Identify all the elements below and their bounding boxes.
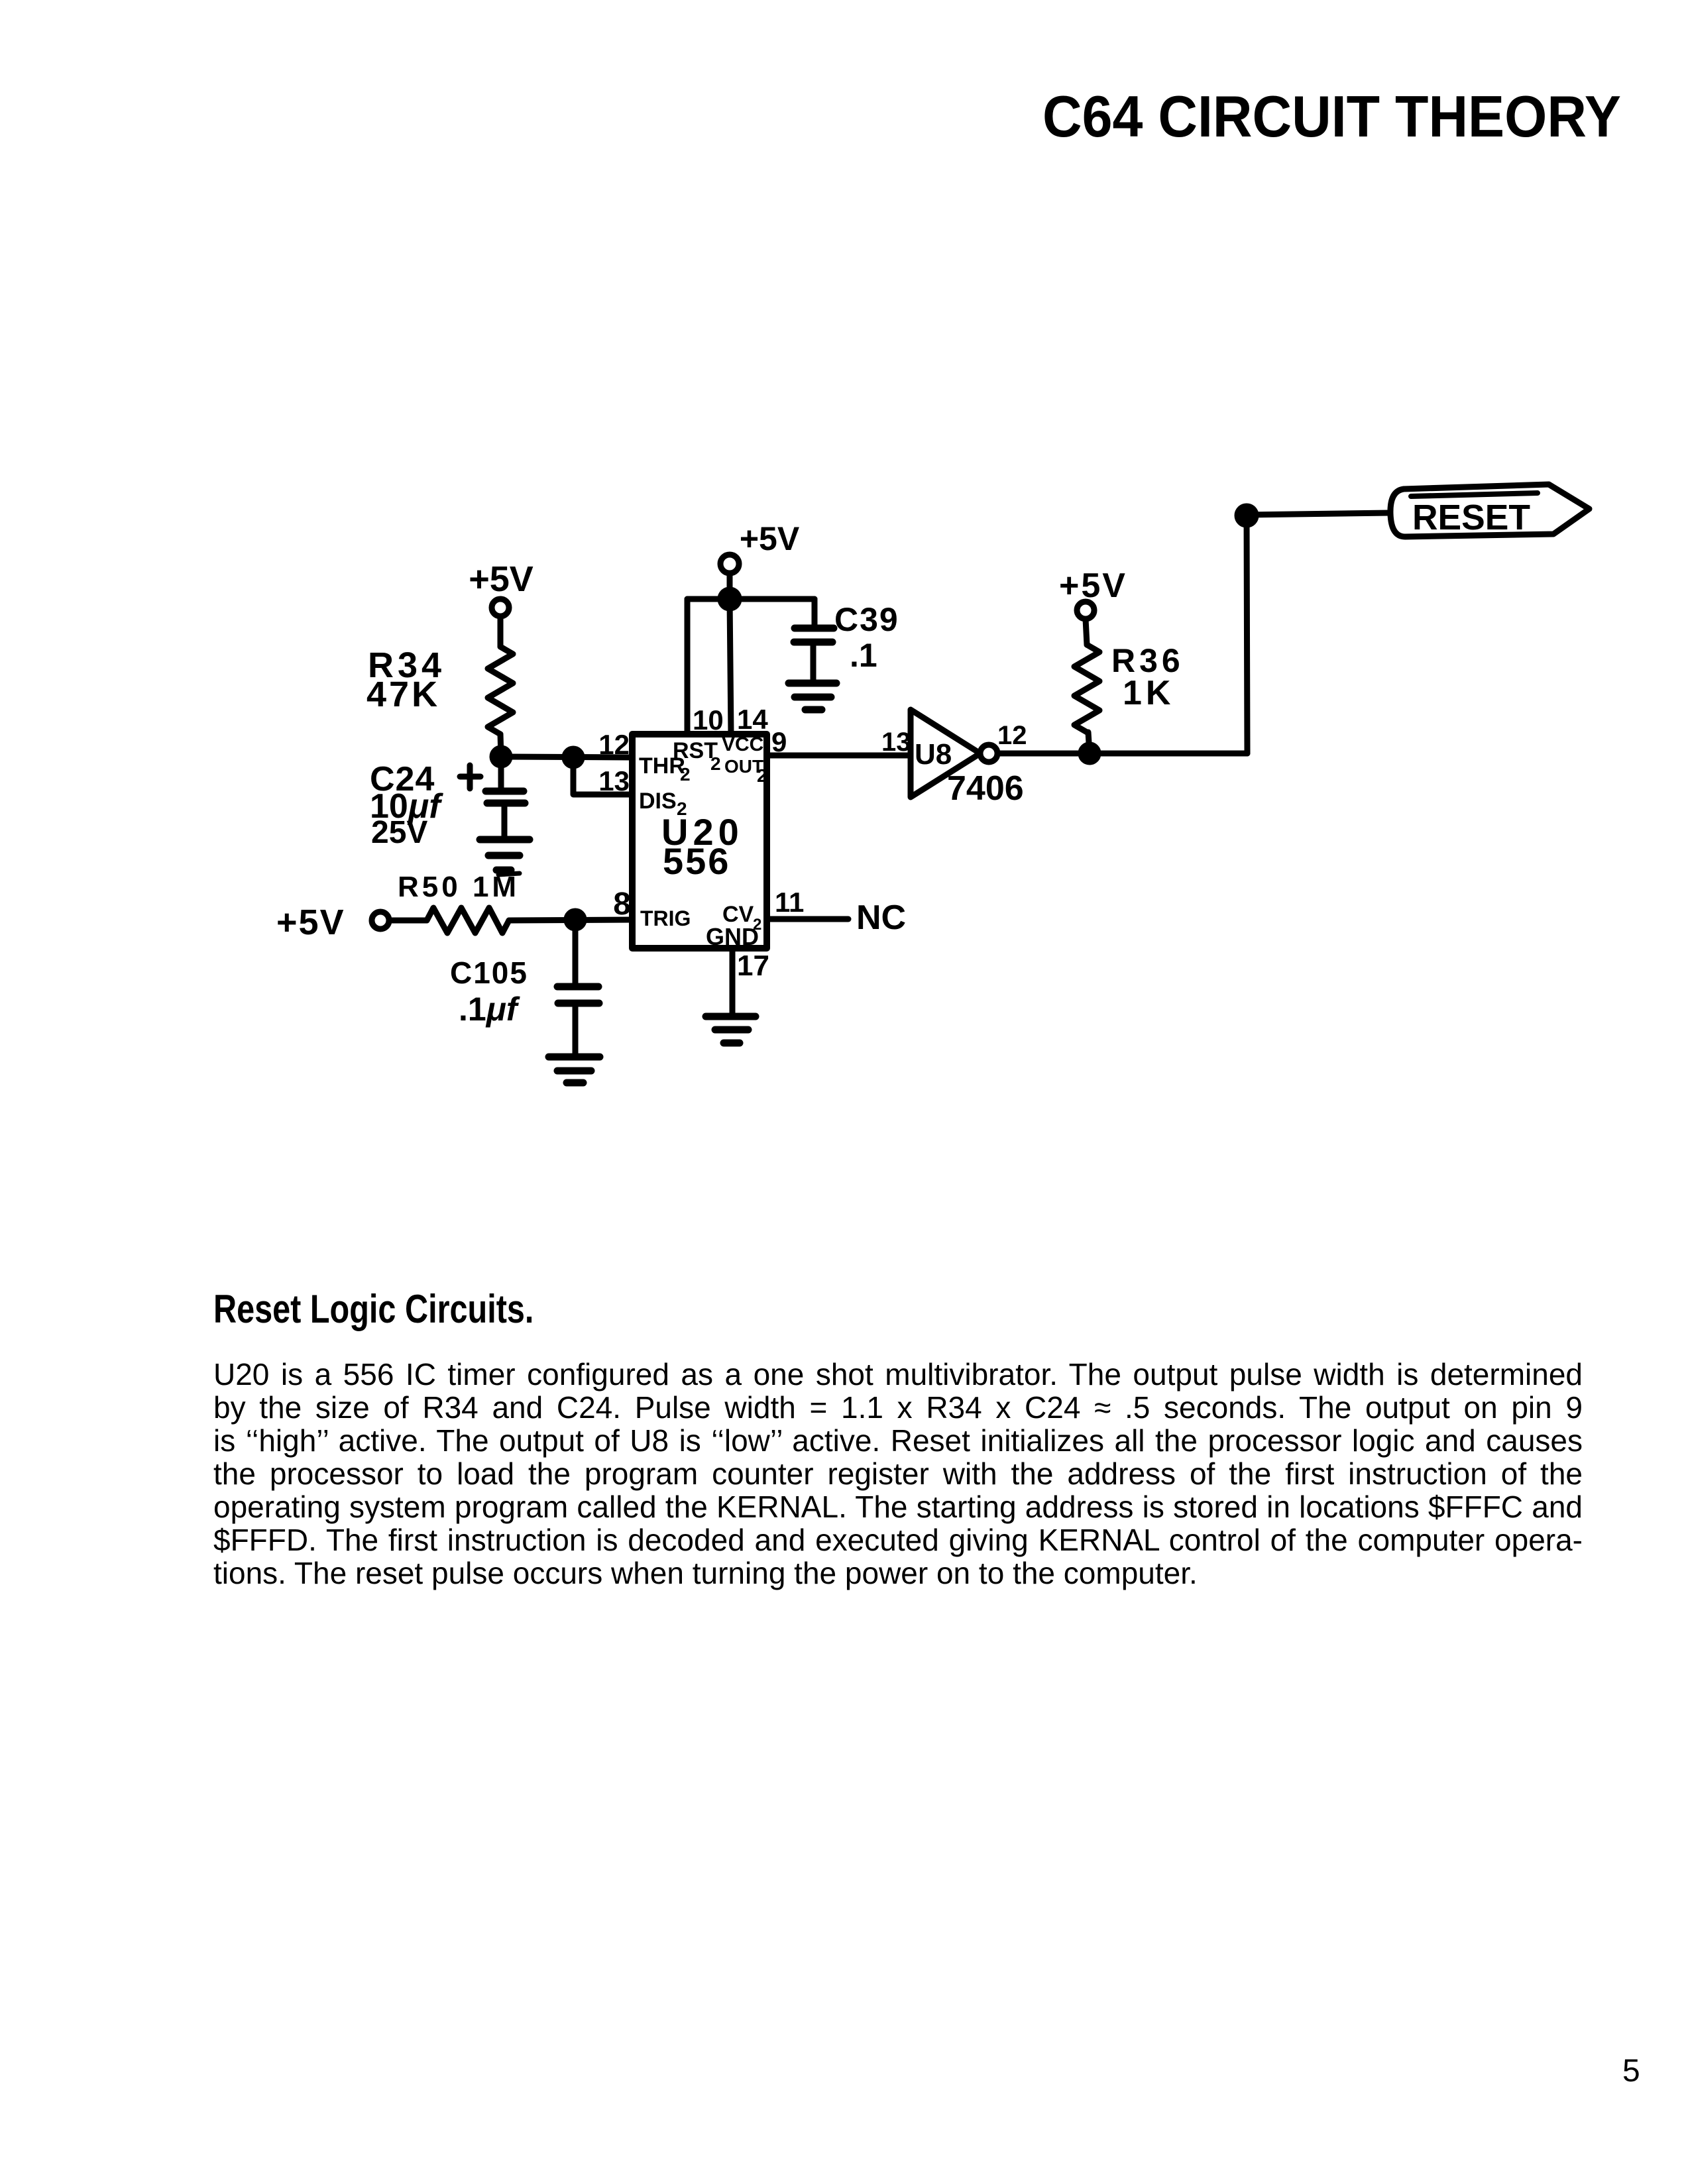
wire U20 pin 11 CV2 to NC	[767, 916, 848, 922]
power terminal +5V for R34	[469, 559, 534, 616]
svg-text:47K: 47K	[366, 675, 440, 714]
inverter U8 7406	[911, 710, 997, 797]
svg-text:C39: C39	[834, 601, 899, 638]
wire node A to pin 12 THR2	[501, 757, 632, 757]
power terminal +5V for R50	[276, 902, 389, 942]
svg-text:2: 2	[710, 753, 721, 774]
svg-text:2: 2	[677, 798, 687, 819]
svg-text:556: 556	[663, 840, 730, 882]
wire R36 bottom to node E	[1088, 732, 1090, 753]
svg-text:NC: NC	[856, 899, 906, 937]
svg-text:.1: .1	[850, 637, 877, 674]
paragraph line 6	[213, 1523, 1583, 1556]
wire +5V terminal to R36	[1086, 619, 1087, 645]
svg-text:THR: THR	[639, 753, 685, 779]
wire node B down to pin 13 DIS2	[573, 757, 632, 794]
node A junction dot (R34/C24/THR2)	[492, 748, 510, 765]
page number	[1622, 2053, 1640, 2089]
resistor R50 label 1M	[398, 871, 520, 903]
node B junction dot (DIS2 tap)	[565, 749, 582, 766]
wire from +5V terminal to R34	[498, 616, 504, 647]
svg-text:12: 12	[997, 721, 1027, 750]
wire bus to pin 14 VCC	[730, 599, 731, 734]
svg-text:25V: 25V	[371, 815, 427, 850]
svg-text:+5V: +5V	[740, 520, 800, 557]
paragraph line 1	[213, 1358, 1583, 1391]
svg-text:1K: 1K	[1123, 674, 1174, 712]
svg-text:11: 11	[775, 887, 804, 918]
svg-text:+5V: +5V	[469, 559, 534, 599]
svg-text:+5V: +5V	[1059, 567, 1127, 605]
ground below C105	[549, 1057, 600, 1083]
RESET signal flag	[1390, 484, 1589, 537]
svg-text:13: 13	[598, 765, 630, 796]
svg-text:U8: U8	[915, 738, 952, 771]
power terminal +5V for R36	[1059, 567, 1127, 619]
capacitor C105 value label .1uf	[450, 955, 528, 1028]
svg-text:2: 2	[680, 764, 691, 785]
svg-text:8: 8	[613, 887, 631, 922]
svg-text:13: 13	[881, 728, 911, 757]
svg-text:12: 12	[598, 729, 630, 760]
wire bus to pin 10 RST2	[685, 599, 691, 734]
capacitor C105	[557, 920, 599, 1055]
svg-text:VCC: VCC	[722, 734, 763, 755]
svg-text:2: 2	[757, 765, 767, 786]
resistor R34	[488, 647, 513, 734]
power terminal +5V above U20	[720, 520, 800, 573]
svg-text:RESET: RESET	[1412, 498, 1530, 537]
paragraph line 2	[213, 1391, 1583, 1424]
resistor R34 label 47K	[366, 645, 445, 714]
svg-text:7406: 7406	[947, 769, 1024, 808]
paragraph line 7	[213, 1556, 1583, 1590]
svg-text:+5V: +5V	[276, 902, 345, 942]
U20 pin name DIS2	[639, 789, 687, 819]
wire R50 to pin 8 TRIG	[509, 920, 632, 920]
svg-text:17: 17	[737, 950, 769, 982]
wire U20 pin 9 OUT2 to U8 input	[767, 753, 911, 759]
node E junction dot (R36/U8 output)	[1081, 745, 1098, 762]
paragraph line 4	[213, 1457, 1583, 1490]
VCC bus wire	[687, 596, 815, 602]
capacitor C39 value label .1	[834, 601, 899, 674]
U20 pin name THR2	[639, 753, 691, 785]
IC U20 reference label	[661, 811, 744, 882]
U20 pin name OUT2	[724, 756, 767, 786]
page title	[1042, 87, 1621, 146]
U20 pin name VCC	[722, 734, 763, 755]
wire +5V terminal to R50	[389, 918, 427, 924]
inverter U8 reference label	[915, 738, 1024, 808]
paragraph line 5	[213, 1490, 1583, 1523]
node F junction dot at RESET line	[1237, 506, 1256, 525]
svg-text:.1μf: .1μf	[459, 991, 520, 1028]
resistor R36 label 1K	[1111, 642, 1184, 712]
svg-text:C105: C105	[450, 955, 528, 990]
section heading	[213, 1289, 534, 1329]
paragraph line 3	[213, 1424, 1583, 1457]
wire node F to RESET flag	[1247, 513, 1389, 515]
resistor R50	[427, 908, 509, 933]
capacitor C24	[486, 757, 525, 838]
wire U8 output to RESET corner	[997, 751, 1247, 757]
svg-text:TRIG: TRIG	[640, 906, 691, 930]
resistor R36	[1074, 645, 1099, 732]
U20 pin name GND	[706, 923, 759, 950]
overbar on R50 1M	[498, 873, 520, 875]
wire R34 bottom to node A	[500, 734, 501, 757]
svg-text:10: 10	[693, 704, 724, 736]
U20 pin name RST2	[673, 738, 721, 774]
ground below C39	[789, 683, 836, 710]
svg-text:14: 14	[737, 704, 768, 735]
node C junction dot (TRIG/C105)	[567, 911, 584, 928]
ground below C24	[480, 840, 530, 870]
U20 pin name CV2	[722, 902, 761, 934]
wire corner up to RESET node	[1247, 516, 1247, 753]
ground below U20	[706, 1016, 756, 1043]
capacitor C24 polarity plus sign	[460, 765, 480, 789]
IC U20 556 timer body	[632, 734, 767, 948]
wire +5V terminal down to VCC bus	[727, 573, 733, 599]
U20 pin name TRIG	[640, 906, 691, 930]
wire U20 GND pin 17 to ground	[730, 948, 736, 1014]
wire bus to capacitor C39	[812, 599, 818, 626]
svg-text:DIS: DIS	[639, 789, 677, 814]
capacitor C24 value label 10uf 25V	[370, 760, 443, 850]
node D junction dot on VCC bus	[720, 590, 739, 608]
capacitor C39	[794, 628, 834, 681]
